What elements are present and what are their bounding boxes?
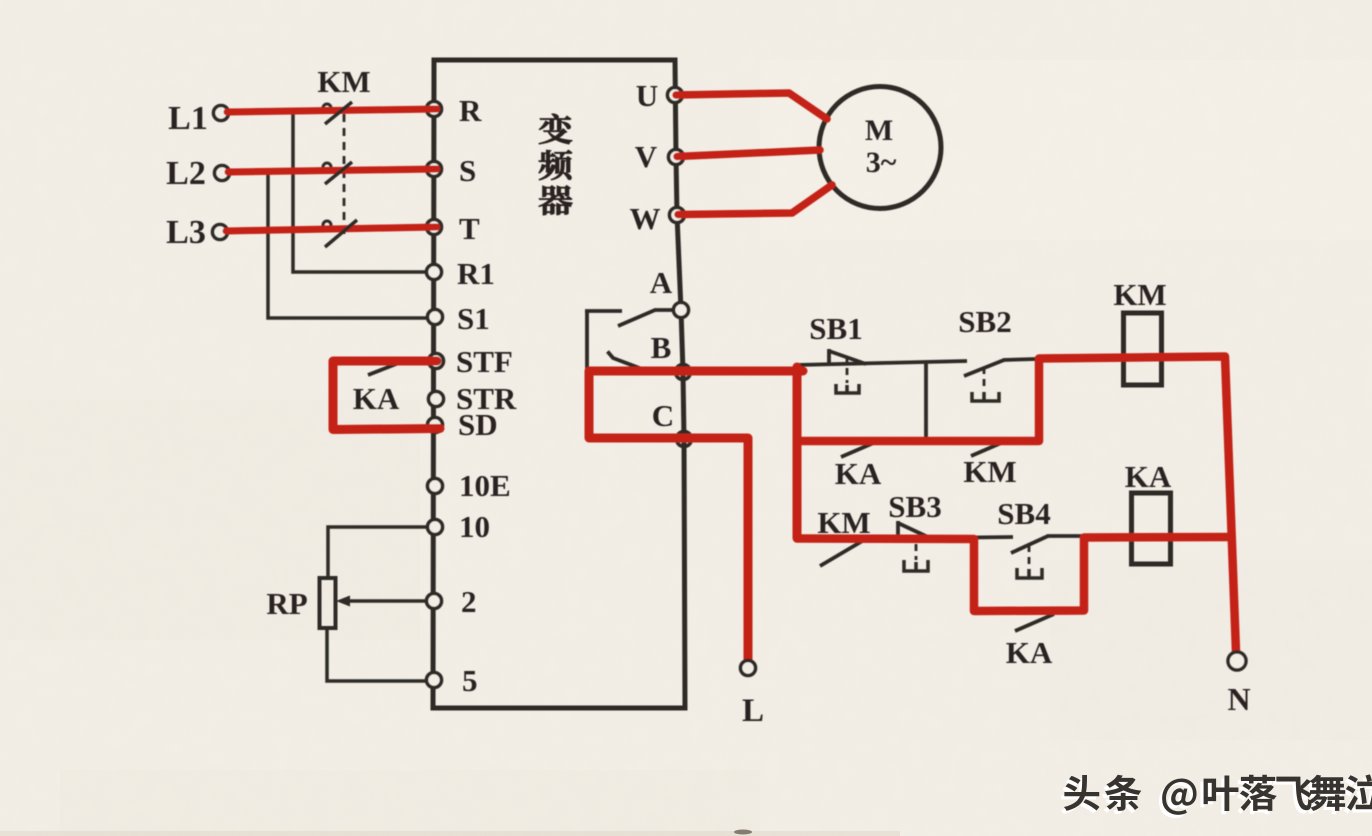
terminal N: [1228, 652, 1246, 670]
svg-text:L3: L3: [166, 214, 206, 251]
inverter relay contact B blade: [608, 352, 643, 370]
terminal W: [670, 208, 685, 223]
wire S1 tap from L2 line: [268, 172, 428, 318]
wire B-C to L (red): [589, 371, 803, 661]
svg-text:L1: L1: [168, 100, 208, 137]
svg-text:SB3: SB3: [888, 489, 941, 524]
svg-text:S: S: [459, 153, 476, 188]
terminal STF: [429, 354, 444, 369]
svg-text:SB2: SB2: [958, 304, 1011, 339]
terminal U: [668, 88, 683, 103]
svg-text:SB1: SB1: [809, 311, 862, 346]
relay contact KA (parallel to SB4, NO): [1015, 614, 1054, 631]
svg-text:KA: KA: [1006, 635, 1053, 670]
svg-text:RP: RP: [266, 586, 307, 621]
contactor KM main contacts dashed linkage: [343, 114, 346, 240]
svg-text:SB4: SB4: [997, 496, 1050, 531]
terminal S: [427, 162, 442, 177]
svg-text:3~: 3~: [866, 146, 897, 179]
svg-text:L2: L2: [166, 155, 206, 192]
relay contact KA (row 2, NO): [841, 441, 878, 457]
svg-text:KM: KM: [1113, 277, 1166, 312]
pushbutton SB1 (NC stop): [829, 349, 866, 365]
terminal A: [674, 303, 689, 318]
wire row2 KA-KM to KM coil and N (red): [797, 357, 1236, 653]
inverter label 变频器: [539, 114, 572, 144]
relay coil KA: [1132, 493, 1171, 564]
terminal C: [677, 432, 692, 447]
svg-text:KA: KA: [353, 381, 400, 416]
wire control row 3 segments: [931, 536, 1086, 538]
terminal V: [669, 150, 684, 165]
wire W to motor (red): [678, 185, 832, 215]
inverter relay common rail A-B: [585, 311, 589, 369]
terminal R: [427, 102, 442, 117]
svg-text:U: U: [636, 78, 658, 113]
svg-text:W: W: [630, 201, 661, 236]
svg-text:KA: KA: [1125, 459, 1172, 494]
svg-text:S1: S1: [457, 301, 490, 336]
svg-text:C: C: [652, 398, 674, 433]
svg-text:STF: STF: [456, 344, 513, 379]
terminal S1: [428, 310, 443, 325]
pushbutton SB4 (NO start): [1011, 536, 1048, 553]
svg-text:R: R: [459, 93, 482, 128]
terminal SD: [428, 418, 443, 433]
contactor KM main contact blades: [325, 102, 357, 247]
terminal R1: [427, 265, 442, 280]
terminal B: [676, 365, 691, 380]
wire V to motor (red): [677, 150, 820, 157]
svg-text:10: 10: [459, 509, 490, 544]
wire RP bottom to terminal 5: [327, 628, 427, 681]
inverter relay contact A blade: [585, 310, 673, 326]
terminal 10: [428, 520, 443, 535]
RP wiper arrowhead: [336, 596, 350, 607]
wire control row 1 (B to SB1-SB2): [797, 359, 1036, 365]
RP wiper arrow wire to terminal 2: [348, 599, 427, 603]
svg-text:L: L: [742, 693, 764, 729]
terminal T: [427, 220, 442, 235]
inverter U1 box outline: [433, 60, 685, 708]
svg-text:A: A: [650, 265, 673, 300]
svg-text:T: T: [459, 211, 480, 246]
motor M circle: [819, 87, 941, 209]
svg-text:5: 5: [462, 663, 478, 698]
potentiometer RP body: [320, 578, 336, 628]
contactor coil KM: [1124, 313, 1162, 385]
svg-text:KA: KA: [835, 456, 882, 491]
wire control left rail (red): [793, 367, 802, 538]
wire L1 to R (red): [227, 109, 437, 112]
svg-text:SD: SD: [458, 407, 498, 442]
terminal L2: [215, 166, 230, 181]
wire junction row1-row2: [924, 362, 928, 440]
wire 10 to RP top: [328, 527, 427, 578]
contactor contact KM (row 2, self-hold NO): [971, 440, 1008, 456]
svg-text:10E: 10E: [459, 468, 511, 503]
watermark 头条@叶落飞舞泣: [1061, 774, 1372, 818]
svg-text:M: M: [865, 114, 893, 147]
svg-text:2: 2: [461, 584, 477, 619]
svg-text:KM: KM: [317, 64, 370, 99]
terminal 5: [427, 673, 442, 688]
terminal 10E: [428, 479, 443, 494]
svg-text:B: B: [651, 330, 672, 365]
contactor KM contact pivots: [323, 104, 331, 229]
svg-text:N: N: [1227, 681, 1250, 717]
wire R1 tap from L1 line: [293, 112, 427, 272]
svg-text:R1: R1: [457, 256, 495, 291]
terminal L3: [213, 225, 228, 240]
terminal STR: [429, 392, 444, 407]
pushbutton SB2 (NO start): [964, 360, 1004, 376]
terminal L: [741, 661, 756, 676]
terminal 2: [427, 594, 442, 609]
svg-text:KM: KM: [963, 454, 1016, 489]
relay contact KA blade (STF loop): [368, 359, 409, 375]
pushbutton SB3 (NC stop): [898, 521, 931, 539]
wire U to motor (red): [676, 93, 827, 119]
wire L3 to T (red): [226, 227, 437, 231]
terminal L1: [214, 106, 229, 121]
wire L2 to S (red): [228, 169, 437, 172]
wire row3 KM-SB3-KA detour to KA coil (red): [797, 537, 1231, 611]
svg-text:V: V: [635, 139, 658, 174]
wire STF-KA-SD loop (red): [333, 361, 440, 430]
contactor contact KM (row 3, NO): [820, 540, 864, 566]
